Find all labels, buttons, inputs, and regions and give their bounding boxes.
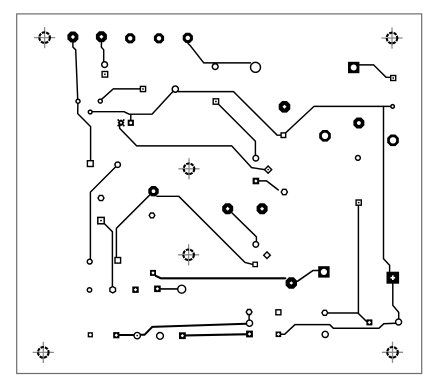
pad R — [115, 258, 121, 264]
pad AS (square) — [88, 332, 93, 337]
pad C2 (square) — [102, 72, 108, 78]
via U — [253, 155, 259, 161]
pad AT (square) — [276, 332, 282, 338]
pad P5 — [183, 33, 193, 43]
wire from pad T down to via U — [218, 104, 255, 155]
hex pad O — [110, 287, 116, 293]
fiducial mark middle-left — [178, 158, 199, 179]
hex pad Z — [322, 310, 328, 315]
wire stub to cluster pad — [130, 114, 132, 120]
pad Q (filled) — [148, 186, 158, 196]
via C — [102, 62, 108, 68]
square pad AD — [318, 266, 329, 277]
pad P2 — [96, 31, 107, 42]
fiducial mark bottom-left — [33, 342, 54, 363]
ring pad D — [251, 62, 261, 72]
pad AW (round) — [322, 331, 328, 337]
hex pad L2 — [149, 213, 155, 218]
pad N — [98, 217, 104, 223]
pad AV (round) — [157, 333, 164, 340]
pad AP — [253, 178, 260, 185]
fiducial mark bottom-right — [382, 342, 403, 363]
wire from pad P5 to ring pad D — [188, 43, 251, 63]
wire bottom-right bus — [281, 323, 395, 334]
wire from pad AE to hex pad AF — [119, 334, 134, 336]
via C2 — [98, 99, 102, 103]
pad AM — [391, 76, 396, 81]
wire from pad Q right and down to pad S — [157, 196, 253, 264]
hex pad AQ — [281, 189, 287, 194]
pad F — [140, 86, 145, 91]
pad B (square) — [87, 161, 93, 167]
via G — [88, 110, 92, 114]
ring pad O1 — [319, 130, 331, 142]
hex pad Z1 — [246, 310, 252, 315]
wire from hex pad Z to right-bus junction — [328, 312, 359, 314]
wire vertical right bus down to square pad W — [384, 106, 390, 271]
ring pad O2 — [387, 135, 399, 147]
pad F5 — [257, 203, 268, 214]
via AO — [253, 242, 259, 248]
cluster square pad — [128, 120, 134, 126]
wire from square pad AL to pad AM — [359, 65, 390, 77]
wire from via G right to via H — [92, 92, 173, 115]
diamond pad J — [265, 166, 272, 173]
wire from via A down-left to node B — [78, 103, 91, 161]
wire from pad Y down right-bus vertical — [357, 205, 359, 313]
pad AA — [366, 319, 372, 325]
wire from pad P1 to via A — [73, 43, 78, 99]
wire from pad K up-right to via V — [286, 106, 391, 132]
wire junction to pad AA — [358, 314, 366, 322]
wire from via E up-right to pad F — [102, 89, 141, 100]
pad AU (square) — [276, 310, 281, 315]
pad K — [281, 133, 286, 138]
cluster X pad — [118, 119, 125, 126]
wire from pad Q down-left to pad R — [116, 195, 149, 258]
fiducial mark middle-center — [178, 244, 199, 265]
pad S — [253, 262, 257, 266]
via V — [391, 105, 395, 109]
wire from pad P2 to via C — [101, 43, 103, 62]
pad AN — [222, 203, 233, 214]
pad P3 — [125, 33, 135, 43]
pad P1 — [67, 32, 78, 43]
fiducial mark top-right — [381, 27, 402, 48]
pad T — [213, 99, 218, 104]
wire from via H right to pad K — [178, 92, 281, 136]
wire from pad AB right to pad AC — [156, 276, 285, 278]
via A — [76, 99, 80, 103]
pad AB — [150, 270, 156, 276]
ring pad AK — [178, 285, 186, 293]
pad AI — [246, 331, 253, 338]
wire from via L down-left to via M — [90, 167, 116, 260]
pad AF (round) — [134, 332, 140, 338]
wire stub hex pad to via AG — [248, 315, 250, 320]
wire from pad N down to hex pad O — [104, 224, 112, 287]
wire from square pad W down to via X — [393, 284, 399, 319]
pad F2 — [353, 118, 364, 129]
pad F1 — [279, 101, 291, 113]
via H2 (pendant) — [212, 64, 218, 70]
via L — [115, 162, 120, 167]
pad AH — [179, 332, 186, 339]
pad P4 — [154, 33, 164, 43]
wire from cluster X pad to diamond pad J — [120, 126, 265, 170]
via H — [172, 86, 178, 92]
wire from pad AH to pad AI — [186, 334, 246, 335]
wire from pad AN down to via AO — [232, 213, 257, 242]
hex pad B2 — [98, 195, 104, 200]
diamond pad S2 — [264, 252, 271, 259]
square pad W — [387, 272, 400, 284]
via AG — [246, 320, 252, 326]
wire from pad AJ to ring pad AK — [161, 288, 178, 290]
pad AE — [113, 332, 119, 338]
wire from hex pad AF up to via AG — [140, 324, 246, 335]
via Y2 — [356, 156, 361, 161]
pad AR (square) — [132, 287, 138, 293]
wire from pad AP to hex pad AQ — [259, 181, 278, 190]
pad Y — [356, 200, 361, 205]
fiducial mark top-left — [34, 27, 55, 48]
via X — [396, 319, 402, 325]
pad AJ — [154, 286, 161, 293]
square pad AL — [348, 62, 359, 73]
via M2 — [87, 288, 91, 292]
wire from pad AC up-right to square pad AD — [297, 271, 318, 282]
via M — [87, 259, 92, 264]
pad AC — [286, 277, 297, 288]
